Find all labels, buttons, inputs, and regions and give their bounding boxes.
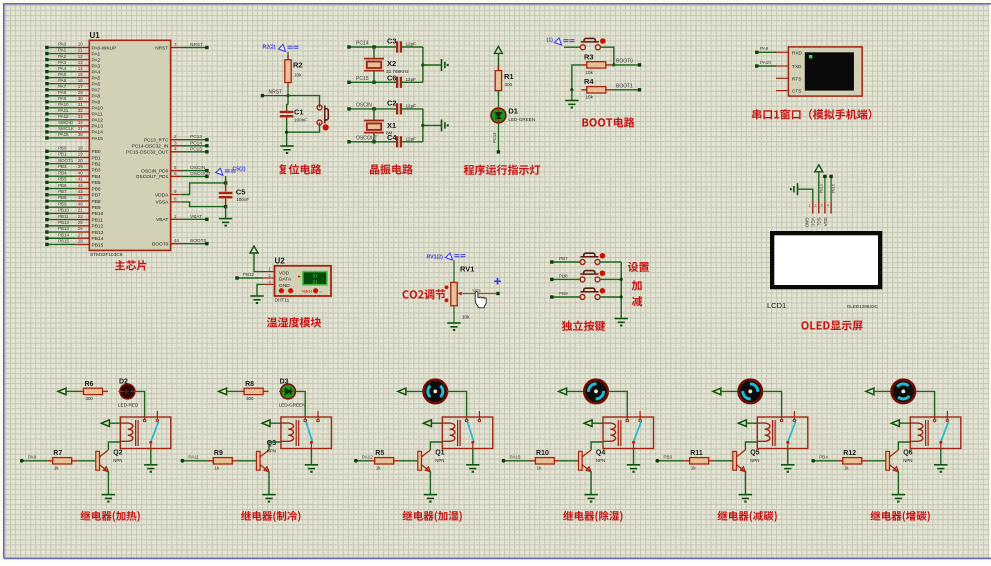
svg-text:PB5: PB5 [58, 177, 67, 182]
svg-text:100nF: 100nF [294, 118, 307, 123]
wire R1 to D1 [497, 91, 499, 108]
svg-text:16: 16 [78, 78, 84, 83]
svg-text:PA7: PA7 [92, 88, 101, 94]
power symbol relay coil Q5 [738, 420, 746, 427]
power symbol above OLED VCC [815, 165, 823, 172]
svg-text:OSCOUT: OSCOUT [190, 171, 211, 177]
wire net PA9 to U1 pin 30 [45, 96, 100, 106]
svg-text:C6: C6 [387, 74, 397, 83]
svg-text:PB13: PB13 [92, 230, 104, 236]
wire bus to ground [571, 90, 573, 101]
svg-text:PA11: PA11 [92, 112, 103, 118]
wire net PB8 to U1 pin 45 [45, 195, 101, 205]
wire net PB13 to U1 pin 26 [45, 226, 103, 236]
transistor Q2 NPN [96, 450, 123, 472]
wire net OSCIN [347, 103, 396, 111]
svg-text:PC15: PC15 [190, 146, 202, 152]
wire R9 to base [238, 460, 257, 462]
resistor R9 1k [208, 450, 238, 471]
svg-text:PA9: PA9 [760, 46, 769, 51]
wire emitter to ground [107, 472, 109, 495]
svg-text:PA13: PA13 [92, 124, 104, 130]
wire D3 to relay [297, 391, 305, 417]
svg-text:1k: 1k [844, 466, 849, 471]
OLED pin SDA [823, 202, 831, 226]
led D1 LED-GREEN [491, 106, 535, 124]
ground below Q2 [102, 495, 115, 502]
relay of 继电器(增碳) [910, 411, 961, 449]
svg-text:PA1: PA1 [92, 51, 101, 57]
wire NRST node to reset button [288, 96, 320, 108]
wire net PA11 to U1 pin 32 [45, 108, 103, 118]
OLED pin GND [805, 202, 813, 227]
svg-text:1k: 1k [215, 466, 220, 471]
U1 pin 7 NRST wire and net label NRST [155, 42, 208, 51]
svg-text:GND: GND [279, 283, 290, 289]
svg-text:1: 1 [809, 204, 811, 208]
transistor Q1 NPN [418, 450, 445, 472]
fan motor of 继电器(增碳) [891, 379, 916, 404]
svg-text:R2: R2 [293, 61, 303, 70]
wire to ground right of X2 [423, 64, 442, 66]
svg-text:PA15: PA15 [58, 132, 69, 137]
wire C5 node vertical [225, 176, 227, 184]
wire OLED GND [798, 189, 813, 202]
wire net PB15 to U1 pin 28 [45, 239, 103, 249]
svg-text:PB7: PB7 [58, 189, 67, 194]
wire net PB0 to U1 pin 18 [45, 146, 101, 156]
U1 reference designator [90, 31, 101, 40]
svg-text:LED-RED: LED-RED [118, 402, 139, 407]
transistor Q6 NPN [886, 450, 913, 472]
svg-text:20: 20 [78, 158, 84, 163]
svg-text:OSCIN: OSCIN [356, 103, 372, 109]
svg-text:30: 30 [78, 96, 84, 101]
label 复位电路 [279, 164, 321, 174]
svg-text:PA3: PA3 [58, 60, 67, 65]
wire D2 to relay [136, 391, 144, 417]
svg-text:BOOT1: BOOT1 [58, 158, 74, 163]
svg-text:10k: 10k [462, 315, 470, 320]
wire net SWCLK to U1 pin 37 [45, 126, 103, 136]
push button reset [317, 105, 329, 131]
resistor R6 300 [78, 381, 108, 401]
svg-text:PA8: PA8 [28, 454, 37, 459]
wire X2 bottom [372, 71, 375, 84]
power symbol relay coil Q6 [891, 420, 899, 427]
virtual terminal body [788, 47, 862, 96]
wire net PC14 [347, 40, 396, 48]
svg-text:DATA: DATA [279, 277, 292, 283]
svg-text:PB15: PB15 [92, 242, 104, 248]
svg-text:PB4: PB4 [819, 454, 828, 459]
U1 pin 6 OSCOUT wire and net label OSCOUT [136, 171, 211, 180]
svg-text:CTS: CTS [792, 89, 802, 95]
wire OLED SDA terminal [829, 175, 835, 202]
svg-text:TXD: TXD [792, 64, 802, 70]
resistor R11 1k [684, 450, 714, 471]
svg-text:PA12: PA12 [58, 114, 69, 119]
svg-text:VBAT: VBAT [156, 217, 168, 223]
wire net PA15 to U1 pin 38 [45, 132, 103, 142]
wire C6 to right bus [402, 81, 423, 83]
svg-text:PC15: PC15 [356, 76, 369, 82]
svg-text:SWDIO: SWDIO [58, 120, 74, 125]
svg-text:SDA: SDA [823, 217, 828, 226]
svg-text:22: 22 [78, 214, 84, 219]
resistor R12 1k [837, 450, 867, 471]
svg-text:39: 39 [78, 164, 84, 169]
svg-text:PC14: PC14 [190, 140, 202, 146]
wire net PB4 to U1 pin 40 [45, 170, 101, 180]
svg-text:PA14: PA14 [92, 130, 104, 136]
wire VSSA to C5 bottom node [182, 202, 227, 208]
label 继电器(增碳) [870, 511, 929, 522]
svg-text:PA4: PA4 [92, 69, 101, 75]
power symbol fan rail Q6 [866, 388, 874, 395]
svg-text:41: 41 [78, 177, 84, 182]
svg-text:21: 21 [312, 279, 318, 284]
svg-text:PB14: PB14 [92, 236, 104, 242]
wire power to R1 [497, 53, 499, 70]
svg-text:PB8: PB8 [559, 273, 568, 278]
svg-text:SWCLK: SWCLK [58, 126, 74, 131]
wire net PB12 to U1 pin 25 [45, 220, 103, 230]
push button KEY-PB9 [580, 288, 605, 300]
RV1 value 10k [462, 315, 470, 320]
wire net PA3 to U1 pin 13 [45, 60, 100, 70]
svg-text:NRST: NRST [269, 90, 283, 96]
svg-text:PB13: PB13 [58, 226, 70, 231]
wire relay to ground [150, 449, 152, 465]
ground below C1 [280, 146, 293, 153]
svg-text:NPN: NPN [903, 458, 912, 463]
wire emitter to ground [744, 472, 746, 495]
wire emitter to ground [590, 472, 592, 495]
wire net PB1 to U1 pin 19 [45, 152, 101, 162]
wire net PB12 to U2 DATA [235, 272, 274, 280]
ground below relay Q6 [934, 465, 947, 472]
wire power to fan [721, 390, 739, 392]
power symbol above U2 [250, 246, 258, 253]
svg-text:R5: R5 [375, 450, 384, 457]
svg-text:26: 26 [78, 226, 84, 231]
svg-text:25: 25 [78, 220, 84, 225]
svg-text:PA8: PA8 [92, 94, 101, 100]
wire R10 to base [560, 460, 579, 462]
svg-text:PB4: PB4 [58, 170, 67, 175]
svg-text:10k: 10k [294, 73, 302, 78]
svg-text:PC15-OSC32_OUT: PC15-OSC32_OUT [126, 150, 168, 156]
crystal X1 [364, 121, 396, 136]
LCD1 part value [847, 304, 879, 309]
svg-text:33: 33 [78, 114, 84, 119]
svg-text:3: 3 [821, 204, 823, 208]
svg-text:14: 14 [78, 66, 84, 71]
relay of 继电器(制冷) [281, 411, 332, 449]
svg-text:RV1(2): RV1(2) [427, 255, 444, 261]
svg-text:VDDA: VDDA [155, 192, 169, 198]
svg-text:D1: D1 [508, 107, 518, 116]
svg-text:PB0: PB0 [58, 146, 67, 151]
power symbol relay coil Q2 [101, 420, 109, 427]
wire emitter to ground [268, 472, 270, 495]
U1 pin 1 VBAT wire and net label VBAT [156, 214, 208, 223]
fan motor of 继电器(加湿) [424, 380, 447, 403]
svg-text:PB12: PB12 [58, 220, 70, 225]
label 晶振电路 [370, 164, 413, 174]
svg-text:PB11: PB11 [92, 217, 104, 223]
resistor R5 1k [369, 450, 399, 471]
voltage probe (1) [547, 38, 575, 46]
svg-text:U1: U1 [90, 31, 101, 40]
wire net PA10 to U1 pin 31 [45, 102, 103, 112]
wire power to fan [567, 390, 585, 392]
wire VDDA to C5 top node [182, 181, 227, 194]
svg-text:PA12: PA12 [92, 118, 104, 124]
svg-text:PB6: PB6 [58, 183, 67, 188]
wire net PB4 [811, 454, 837, 462]
wire net PB7 to key [550, 256, 581, 264]
wire C2 to right bus [402, 108, 423, 110]
svg-text:C5(2): C5(2) [233, 166, 246, 172]
resistor R8 300 [239, 381, 269, 401]
svg-text:PB15: PB15 [58, 239, 70, 244]
label 设置 [628, 262, 649, 272]
wire X1 top [373, 109, 375, 121]
svg-text:SCL: SCL [817, 217, 822, 226]
wire power to R6 [66, 390, 78, 392]
wire net PA9 to terminal RXD [755, 46, 788, 54]
svg-text:PC13_RTC: PC13_RTC [144, 138, 169, 144]
svg-text:38: 38 [78, 132, 84, 137]
svg-text:OSCIN_PD0: OSCIN_PD0 [141, 168, 169, 174]
svg-text:NPN: NPN [596, 458, 605, 463]
svg-text:PB8: PB8 [92, 199, 101, 205]
wire power to R8 [227, 390, 239, 392]
relay of 继电器(减碳) [757, 411, 808, 449]
relay of 继电器(除湿) [603, 411, 654, 449]
svg-text:PA15: PA15 [92, 136, 104, 142]
svg-text:PB14: PB14 [58, 232, 70, 237]
svg-text:300: 300 [505, 82, 513, 87]
label 继电器(除湿) [563, 511, 622, 522]
svg-text:PA0-WKUP: PA0-WKUP [92, 45, 117, 51]
svg-text:PB3: PB3 [92, 168, 101, 174]
wire button bottom to C1 bottom [287, 123, 320, 133]
svg-text:Q4: Q4 [596, 450, 605, 457]
wire NRST node down to C1 [287, 96, 288, 109]
wire power to relay coil [747, 422, 757, 424]
svg-text:OSCIN: OSCIN [190, 165, 206, 171]
ground below U2 [250, 296, 263, 303]
svg-text:28: 28 [78, 239, 84, 244]
wire net PA5 to U1 pin 15 [45, 72, 100, 82]
wire net PB5 to U1 pin 41 [45, 177, 101, 187]
capacitor C2 [387, 98, 416, 114]
wire net PC15 [347, 76, 396, 84]
svg-text:PB13: PB13 [820, 184, 824, 193]
wire net PB14 to U1 pin 27 [45, 232, 103, 242]
wire net PB6 to U1 pin 42 [45, 183, 101, 193]
wire net PA15 [502, 454, 530, 462]
svg-text:VSSA: VSSA [155, 200, 169, 206]
svg-text:PA4: PA4 [58, 66, 67, 71]
svg-text:PA11: PA11 [58, 108, 69, 113]
resistor R4 [581, 77, 611, 100]
svg-text:37: 37 [78, 126, 84, 131]
led D3 LED-GREEN [279, 378, 306, 407]
svg-text:D3: D3 [280, 378, 289, 385]
wire net PA0 to U1 pin 10 [45, 42, 116, 52]
svg-text:GND: GND [805, 218, 810, 228]
svg-text:PB10: PB10 [58, 208, 70, 213]
ground right of X1 [442, 119, 448, 131]
fan motor of 继电器(除湿) [579, 375, 612, 408]
svg-text:R12: R12 [843, 450, 856, 457]
resistor R2 [285, 55, 303, 88]
wire R12 to base [867, 460, 886, 462]
wire net PB3 [656, 454, 685, 462]
wire net PB10 to U1 pin 21 [45, 208, 103, 218]
svg-text:17: 17 [78, 84, 84, 89]
net label NRST wire [261, 90, 288, 98]
label 继电器(加热) [80, 511, 139, 522]
svg-text:PB0: PB0 [92, 149, 101, 155]
svg-text:10k: 10k [586, 70, 594, 75]
ground below C5 [219, 219, 232, 226]
resistor R1 [495, 66, 513, 96]
wire power to fan [874, 390, 892, 392]
svg-text:NPN: NPN [750, 458, 759, 463]
svg-text:10: 10 [78, 42, 84, 47]
wire fan to relay [915, 391, 935, 417]
svg-text:44: 44 [174, 238, 179, 243]
label BOOT电路 [582, 117, 634, 127]
wire D1 to PC13 terminal [492, 123, 500, 154]
wire collector to relay [269, 442, 281, 450]
svg-text:R6: R6 [85, 381, 94, 388]
wire probe to boot button [564, 46, 580, 48]
relay of 继电器(加热) [120, 411, 171, 449]
svg-text:PB10: PB10 [92, 211, 104, 217]
wire net PA11 [181, 454, 208, 462]
svg-text:27: 27 [78, 232, 84, 237]
svg-text:PB5: PB5 [92, 180, 101, 186]
svg-text:NRST: NRST [155, 45, 168, 51]
wire emitter to ground [897, 472, 899, 495]
label 温湿度模块 [267, 317, 321, 327]
svg-text:PA12: PA12 [362, 454, 373, 459]
svg-text:46: 46 [78, 201, 84, 206]
ground below Q3 [262, 495, 275, 502]
wire power to relay coil [900, 422, 910, 424]
svg-text:R9: R9 [214, 450, 223, 457]
svg-text:LED-GREEN: LED-GREEN [508, 117, 535, 122]
wire OLED SCL terminal [820, 175, 827, 202]
wire collector to relay [898, 442, 910, 450]
OLED pin SCL [817, 202, 825, 226]
keys common bus [620, 262, 623, 319]
wire net PB9 to key [550, 291, 581, 299]
svg-text:PB7: PB7 [92, 193, 101, 199]
wire to ground right of X1 [423, 124, 442, 126]
svg-text:NPN: NPN [267, 448, 276, 453]
resistor R7 1k [47, 450, 77, 471]
svg-text:40: 40 [78, 170, 84, 175]
power symbol fan rail Q1 [398, 388, 406, 395]
svg-text:C4: C4 [387, 133, 397, 142]
svg-text:PA9: PA9 [92, 100, 101, 106]
svg-text:X1: X1 [387, 121, 396, 130]
wire collector to relay [745, 442, 757, 450]
svg-text:45: 45 [78, 195, 84, 200]
svg-text:42: 42 [78, 183, 84, 188]
svg-text:PA15: PA15 [510, 454, 521, 459]
ground of keys [615, 319, 628, 326]
svg-text:Q3: Q3 [267, 440, 276, 447]
power symbol relay coil Q1 [423, 420, 431, 427]
wire net PB3 to U1 pin 39 [45, 164, 101, 174]
transistor Q3 NPN [256, 440, 276, 472]
svg-text:R4: R4 [584, 77, 594, 86]
svg-text:PC13: PC13 [190, 134, 202, 140]
label 继电器(加湿) [402, 511, 461, 522]
resistor R3 [581, 52, 611, 75]
wire collector to relay [108, 442, 120, 450]
U2 part value DHT11 [275, 298, 290, 304]
wire net PA10 to terminal TXD [755, 60, 788, 68]
capacitor C1 [280, 108, 307, 123]
wire power to relay coil [593, 422, 603, 424]
svg-text:OSCOUT_PD1: OSCOUT_PD1 [136, 174, 169, 180]
label 继电器(减碳) [717, 511, 776, 522]
wire net PA1 to U1 pin 11 [45, 48, 100, 58]
U1 pin 9 VDDA pin stub [155, 189, 182, 198]
wire net PB9 to U1 pin 46 [45, 201, 101, 211]
label 减 [632, 296, 643, 306]
power symbol R6 rail [58, 388, 66, 395]
svg-text:PB2: PB2 [92, 162, 101, 168]
wire key PB8 to bus [600, 278, 622, 280]
ground below relay Q4 [627, 465, 640, 472]
svg-text:1k: 1k [54, 466, 59, 471]
power symbol fan rail Q4 [559, 388, 567, 395]
wire fan to relay [608, 391, 628, 417]
power symbol fan rail Q5 [713, 388, 721, 395]
wire C5 to ground [225, 205, 227, 219]
terminal RTS pin stub [776, 77, 788, 79]
wire RV1 bottom to ground [453, 306, 455, 323]
svg-text:PA6: PA6 [58, 78, 67, 83]
wire C3 to right bus [402, 46, 423, 48]
svg-text:VCC: VCC [811, 218, 816, 227]
svg-text:R11: R11 [690, 450, 703, 457]
label OLED显示屏 [801, 321, 862, 331]
svg-text:43: 43 [78, 189, 84, 194]
label 串口1窗口（模拟手机端） [752, 109, 871, 120]
wire emitter to ground [429, 472, 431, 495]
wire R2 bottom to NRST node [286, 88, 289, 98]
ground below relay Q5 [781, 465, 794, 472]
wire C4 to right bus [402, 141, 423, 143]
U1 part value STM32F103C8 [90, 252, 123, 258]
potentiometer RV1 body [445, 282, 462, 305]
display LCD1 OLED screen [770, 231, 882, 289]
svg-text:C3: C3 [387, 37, 397, 46]
wire relay to ground [940, 449, 942, 465]
svg-text:NPN: NPN [435, 458, 444, 463]
